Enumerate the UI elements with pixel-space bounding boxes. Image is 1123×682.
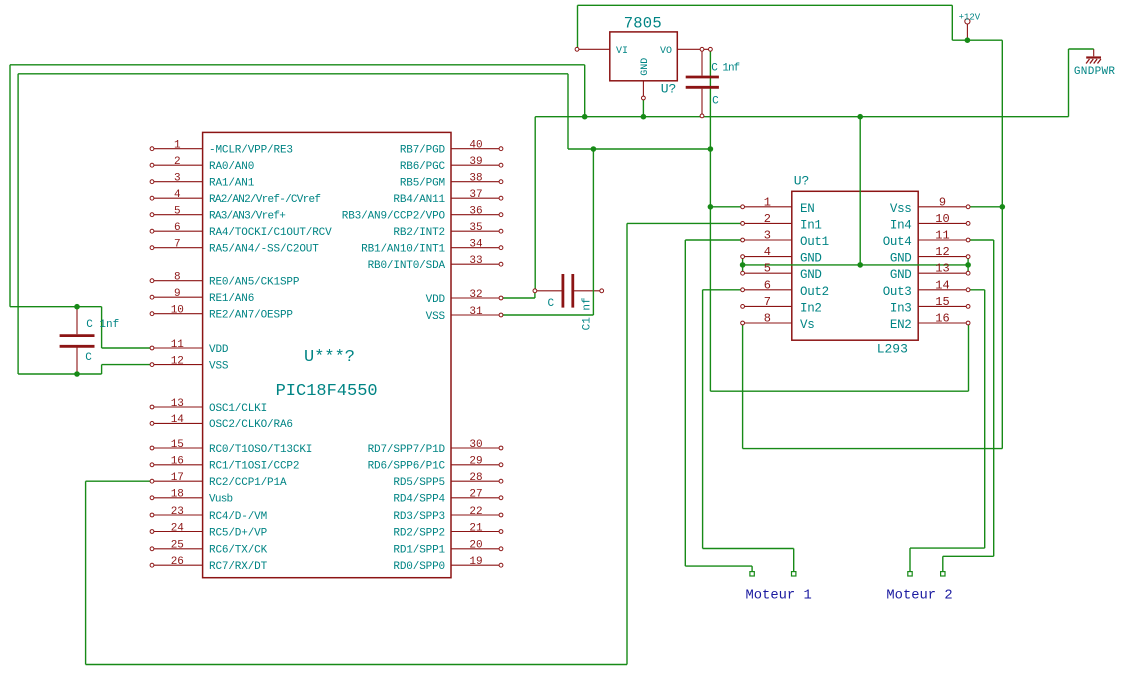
svg-text:C 1nf: C 1nf <box>711 62 739 74</box>
svg-text:RB7/PGD: RB7/PGD <box>400 145 446 157</box>
svg-text:10: 10 <box>171 305 184 317</box>
svg-text:2: 2 <box>174 156 181 168</box>
svg-text:RB5/PGM: RB5/PGM <box>400 178 445 190</box>
svg-text:RD1/SPP1: RD1/SPP1 <box>393 545 445 557</box>
svg-text:38: 38 <box>469 173 482 185</box>
svg-text:1: 1 <box>764 195 771 209</box>
svg-text:11: 11 <box>935 229 949 243</box>
svg-text:4: 4 <box>764 245 771 259</box>
svg-text:EN2: EN2 <box>890 318 912 332</box>
svg-text:RC6/TX/CK: RC6/TX/CK <box>209 545 268 557</box>
svg-text:RB4/AN11: RB4/AN11 <box>393 194 445 206</box>
svg-text:Moteur 1: Moteur 1 <box>746 588 812 603</box>
svg-text:19: 19 <box>469 556 482 568</box>
svg-text:6: 6 <box>764 278 771 292</box>
svg-text:23: 23 <box>171 506 184 518</box>
svg-text:In4: In4 <box>890 218 912 232</box>
svg-text:5: 5 <box>174 206 181 218</box>
svg-text:3: 3 <box>174 173 181 185</box>
svg-text:13: 13 <box>171 398 184 410</box>
svg-text:31: 31 <box>469 306 483 318</box>
svg-text:RA0/AN0: RA0/AN0 <box>209 161 254 173</box>
svg-text:GND: GND <box>640 58 651 76</box>
svg-text:VSS: VSS <box>426 311 446 323</box>
svg-text:22: 22 <box>469 506 482 518</box>
svg-text:Moteur 2: Moteur 2 <box>886 588 952 603</box>
svg-text:RD4/SPP4: RD4/SPP4 <box>393 494 445 506</box>
svg-text:C 1nf: C 1nf <box>86 319 119 331</box>
svg-text:-MCLR/VPP/RE3: -MCLR/VPP/RE3 <box>209 145 293 157</box>
svg-text:33: 33 <box>469 255 482 267</box>
svg-text:RC7/RX/DT: RC7/RX/DT <box>209 561 268 573</box>
svg-text:RA3/AN3/Vref+: RA3/AN3/Vref+ <box>209 211 285 223</box>
svg-text:RD3/SPP3: RD3/SPP3 <box>393 511 445 523</box>
svg-text:Out1: Out1 <box>800 235 829 249</box>
svg-text:Vss: Vss <box>890 202 912 216</box>
svg-text:7805: 7805 <box>624 15 662 33</box>
svg-text:RC0/T1OSO/T13CKI: RC0/T1OSO/T13CKI <box>209 444 312 456</box>
svg-text:Out3: Out3 <box>883 285 912 299</box>
svg-text:12: 12 <box>935 245 949 259</box>
svg-text:C: C <box>712 96 719 108</box>
svg-text:RB6/PGC: RB6/PGC <box>400 161 446 173</box>
svg-text:PIC18F4550: PIC18F4550 <box>276 382 378 401</box>
svg-text:VDD: VDD <box>426 294 446 306</box>
svg-text:RC1/T1OSI/CCP2: RC1/T1OSI/CCP2 <box>209 461 299 473</box>
svg-text:12: 12 <box>171 355 184 367</box>
svg-text:9: 9 <box>939 195 946 209</box>
svg-text:4: 4 <box>174 189 181 201</box>
svg-text:RA2/AN2/Vref-/CVref: RA2/AN2/Vref-/CVref <box>209 194 320 206</box>
svg-text:RC5/D+/VP: RC5/D+/VP <box>209 527 268 539</box>
svg-text:Out2: Out2 <box>800 285 829 299</box>
svg-text:VSS: VSS <box>209 360 229 372</box>
svg-text:U?: U? <box>794 174 810 189</box>
svg-text:21: 21 <box>469 522 483 534</box>
svg-text:GND: GND <box>800 268 822 282</box>
svg-text:C1 nf: C1 nf <box>582 297 594 330</box>
svg-text:RB0/INT0/SDA: RB0/INT0/SDA <box>368 260 446 272</box>
svg-text:RC2/CCP1/P1A: RC2/CCP1/P1A <box>209 477 287 489</box>
svg-text:Out4: Out4 <box>883 235 912 249</box>
svg-text:RA5/AN4/-SS/C2OUT: RA5/AN4/-SS/C2OUT <box>209 244 319 256</box>
svg-text:18: 18 <box>171 489 184 501</box>
svg-text:20: 20 <box>469 540 482 552</box>
svg-text:VI: VI <box>616 46 628 57</box>
svg-text:37: 37 <box>469 189 482 201</box>
svg-text:Vs: Vs <box>800 318 814 332</box>
svg-text:7: 7 <box>174 239 181 251</box>
svg-text:32: 32 <box>469 289 482 301</box>
svg-text:9: 9 <box>174 288 181 300</box>
svg-text:35: 35 <box>469 222 482 234</box>
svg-text:RB1/AN10/INT1: RB1/AN10/INT1 <box>361 244 445 256</box>
svg-text:26: 26 <box>171 556 184 568</box>
svg-text:In1: In1 <box>800 218 822 232</box>
svg-text:RB2/INT2: RB2/INT2 <box>393 227 445 239</box>
svg-text:1: 1 <box>174 140 181 152</box>
svg-text:VDD: VDD <box>209 344 229 356</box>
svg-text:25: 25 <box>171 540 184 552</box>
svg-text:6: 6 <box>174 222 181 234</box>
svg-text:16: 16 <box>935 312 949 326</box>
svg-text:RC4/D-/VM: RC4/D-/VM <box>209 511 267 523</box>
svg-text:28: 28 <box>469 472 482 484</box>
svg-text:GND: GND <box>890 252 912 266</box>
svg-text:RA4/TOCKI/C1OUT/RCV: RA4/TOCKI/C1OUT/RCV <box>209 227 332 239</box>
svg-text:3: 3 <box>764 229 771 243</box>
svg-text:RE1/AN6: RE1/AN6 <box>209 293 254 305</box>
svg-text:2: 2 <box>764 212 771 226</box>
svg-text:GND: GND <box>890 268 912 282</box>
svg-text:EN: EN <box>800 202 814 216</box>
svg-text:40: 40 <box>469 140 482 152</box>
svg-text:RE2/AN7/OESPP: RE2/AN7/OESPP <box>209 310 293 322</box>
svg-text:RB3/AN9/CCP2/VPO: RB3/AN9/CCP2/VPO <box>342 211 446 223</box>
svg-text:13: 13 <box>935 262 949 276</box>
svg-text:8: 8 <box>174 272 181 284</box>
svg-text:34: 34 <box>469 239 483 251</box>
svg-text:RD0/SPP0: RD0/SPP0 <box>393 561 445 573</box>
svg-text:29: 29 <box>469 456 482 468</box>
svg-text:5: 5 <box>764 262 771 276</box>
svg-text:+12V: +12V <box>959 12 981 22</box>
svg-text:11: 11 <box>171 339 185 351</box>
svg-text:GNDPWR: GNDPWR <box>1074 66 1116 78</box>
svg-text:VO: VO <box>660 46 672 57</box>
svg-text:C: C <box>85 352 92 364</box>
svg-text:30: 30 <box>469 439 482 451</box>
svg-text:24: 24 <box>171 522 185 534</box>
svg-text:GND: GND <box>800 252 822 266</box>
svg-text:OSC1/CLKI: OSC1/CLKI <box>209 403 267 415</box>
svg-text:C: C <box>548 298 555 310</box>
svg-text:8: 8 <box>764 312 771 326</box>
svg-text:10: 10 <box>935 212 949 226</box>
svg-text:7: 7 <box>764 295 771 309</box>
svg-text:In2: In2 <box>800 301 822 315</box>
svg-text:L293: L293 <box>877 342 908 357</box>
svg-text:RE0/AN5/CK1SPP: RE0/AN5/CK1SPP <box>209 277 300 289</box>
svg-text:RA1/AN1: RA1/AN1 <box>209 178 255 190</box>
svg-text:14: 14 <box>935 278 949 292</box>
svg-text:36: 36 <box>469 206 482 218</box>
svg-text:RD2/SPP2: RD2/SPP2 <box>393 527 445 539</box>
svg-text:RD6/SPP6/P1C: RD6/SPP6/P1C <box>368 461 446 473</box>
svg-text:17: 17 <box>171 472 184 484</box>
svg-text:16: 16 <box>171 456 184 468</box>
svg-text:RD5/SPP5: RD5/SPP5 <box>393 477 445 489</box>
svg-text:U***?: U***? <box>304 348 355 367</box>
svg-text:15: 15 <box>935 295 949 309</box>
svg-text:U?: U? <box>661 82 677 97</box>
svg-text:OSC2/CLKO/RA6: OSC2/CLKO/RA6 <box>209 419 293 431</box>
svg-text:15: 15 <box>171 439 184 451</box>
svg-text:In3: In3 <box>890 301 912 315</box>
svg-text:Vusb: Vusb <box>209 494 233 506</box>
svg-text:39: 39 <box>469 156 482 168</box>
svg-text:14: 14 <box>171 414 185 426</box>
svg-text:RD7/SPP7/P1D: RD7/SPP7/P1D <box>368 444 446 456</box>
svg-text:27: 27 <box>469 489 482 501</box>
